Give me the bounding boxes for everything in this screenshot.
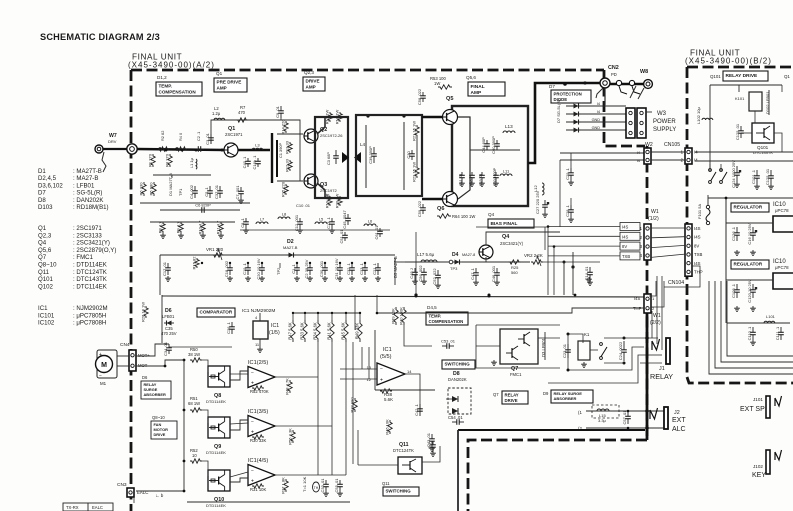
svg-text:C37 .01: C37 .01: [214, 184, 219, 199]
Q7 right wires: [538, 337, 560, 339]
ground C47: [473, 280, 479, 285]
W1 2/2 pin2 up: [651, 281, 664, 307]
transistor Q3: [304, 174, 318, 188]
svg-text:C59 .022: C59 .022: [417, 200, 422, 217]
resistor R48 4.7K: [285, 378, 293, 395]
svg-text:: RD18M(B1): : RD18M(B1): [73, 204, 109, 211]
svg-text:K101: K101: [735, 96, 745, 101]
connector CN104: [685, 224, 703, 276]
junction row263 230: [229, 262, 231, 264]
capacitor C34 .01: [163, 341, 172, 356]
svg-text:R64 100 1W: R64 100 1W: [452, 214, 475, 219]
svg-text:MOT+: MOT+: [138, 353, 150, 358]
svg-text:I4S: I4S: [622, 225, 628, 230]
capacitor C110 .1: [747, 326, 756, 340]
svg-text:(5/5): (5/5): [380, 354, 392, 360]
switch K1 contact: [600, 343, 607, 360]
VR1 wiper: [218, 248, 222, 260]
block label SWITCHING D8: [442, 360, 475, 369]
capacitor C101 .1: [751, 169, 760, 184]
junction J2 a: [627, 410, 630, 413]
svg-text:C53 .01: C53 .01: [441, 339, 456, 344]
svg-text:REGULATOR: REGULATOR: [734, 262, 763, 267]
ground IC1: [257, 347, 263, 352]
wire W1 row 2: [548, 245, 620, 247]
svg-text:C56 .002: C56 .002: [418, 265, 423, 282]
diode D4: [452, 260, 462, 265]
svg-text:C33 .1: C33 .1: [359, 262, 364, 275]
capacitor near Q11: [427, 441, 436, 451]
junction row263 248: [247, 262, 249, 264]
svg-text:R14 220: R14 220: [281, 119, 286, 135]
svg-text:IC1: IC1: [38, 305, 48, 312]
capacitor C29 .1: [565, 167, 574, 180]
unit B border left: [686, 67, 689, 377]
W1-CN104 wire 3: [651, 254, 685, 257]
junction main bus a: [158, 147, 161, 150]
D7 wire I40: [566, 105, 626, 107]
svg-text:38 1W: 38 1W: [188, 352, 200, 357]
resistor R33 5.6K: [300, 320, 308, 342]
capacitor C126b .01: [765, 168, 774, 185]
capacitor C52 .022: [432, 268, 441, 285]
capacitor C48b: [469, 172, 475, 181]
svg-text:Q1: Q1: [784, 74, 790, 79]
capacitor C13: [326, 216, 335, 229]
wire to Q5: [422, 116, 452, 119]
wire bank R49 33K: [359, 313, 361, 320]
unit A border top: [131, 69, 604, 72]
terminal W7 inner: [127, 144, 137, 154]
unit B border bottom: [687, 377, 793, 383]
svg-text:C126 .1: C126 .1: [731, 226, 736, 241]
switch S B1: [709, 169, 716, 184]
main drive bus W7: [103, 148, 127, 150]
W2-CN105 wires: [651, 151, 685, 153]
svg-text:TXB: TXB: [694, 252, 702, 257]
capacitor C3 68P: [333, 150, 339, 164]
inductor L5: [315, 217, 327, 225]
svg-text:IC1(2/5): IC1(2/5): [248, 360, 268, 366]
transformer wires: [365, 125, 367, 188]
svg-text:R9 4.7: R9 4.7: [176, 221, 181, 234]
K1 dash link: [590, 349, 598, 351]
wire C29 tap: [570, 153, 572, 168]
svg-text:L101: L101: [766, 314, 776, 319]
ground R11 4.7: [218, 233, 224, 238]
VR1 row wire: [160, 254, 395, 256]
transistor Q6: [443, 192, 458, 207]
capacitor C49: [479, 172, 485, 181]
inductor L13: [503, 131, 515, 133]
svg-text:D2,4,5: D2,4,5: [38, 175, 57, 182]
motor M1: [96, 350, 118, 386]
wire q7 to w1 rows: [559, 160, 561, 227]
junction bank 318: [317, 312, 319, 314]
svg-text:C29 .1: C29 .1: [565, 167, 570, 180]
inductor L7: [256, 217, 268, 225]
junction K1 wire: [567, 333, 570, 336]
diode pair D8: [446, 388, 471, 414]
CN104 pin5 link: [664, 266, 700, 287]
svg-text:C4 .002: C4 .002: [189, 184, 194, 199]
wire THP row: [377, 308, 644, 313]
svg-text:SCHEMATIC DIAGRAM 2/3: SCHEMATIC DIAGRAM 2/3: [40, 32, 160, 42]
junction W1 row b: [553, 245, 556, 248]
svg-text:C48 J: C48 J: [409, 268, 414, 278]
svg-text:C23 .01: C23 .01: [562, 343, 567, 358]
inductor L15 dashed box: [592, 405, 619, 418]
transistor Q101 box: [752, 123, 774, 143]
junction main bus b: [175, 147, 178, 150]
junction bus 182: [181, 149, 184, 152]
long vertical 416: [415, 232, 417, 295]
main drive bus: [137, 149, 225, 150]
svg-text:2SC1971: 2SC1971: [225, 132, 243, 137]
capacitor C59: [417, 200, 426, 217]
CN2 branch down: [604, 88, 606, 105]
svg-text:C125 .01: C125 .01: [735, 123, 740, 140]
svg-text:MA27-B: MA27-B: [283, 245, 298, 250]
junction relay 647: [645, 336, 649, 340]
W3 wires right: [646, 111, 652, 113]
block label REGULATOR 1: [731, 203, 769, 212]
VR1 rail down: [159, 255, 161, 295]
svg-text:R41 5.6K: R41 5.6K: [327, 322, 332, 340]
svg-text:C24 .0022: C24 .0022: [618, 341, 623, 360]
ground C108: [734, 306, 740, 311]
Q11 vert wire: [357, 430, 359, 465]
EALC wire: [133, 497, 135, 503]
svg-text:C27 220 25V: C27 220 25V: [535, 190, 540, 214]
svg-text:C39 390P: C39 390P: [368, 146, 373, 164]
bank top rail: [293, 312, 360, 314]
resistor R20 1W: [335, 194, 343, 209]
svg-text:C50 1000P: C50 1000P: [493, 167, 497, 186]
capacitor C40 .1: [242, 156, 251, 169]
junction thick J2 2: [645, 426, 649, 430]
svg-text:R12 1W: R12 1W: [325, 110, 330, 125]
svg-text:Q5,6: Q5,6: [466, 75, 476, 80]
transistor Q10: [208, 470, 230, 491]
wire bank R45 5.6K: [345, 313, 347, 320]
connector CN105: [681, 148, 699, 164]
svg-text:MA27-8: MA27-8: [462, 253, 475, 257]
resistor R47 5.6K: [288, 320, 296, 342]
svg-text:3.0: 3.0: [427, 442, 432, 448]
resistor R12 33: [285, 158, 293, 172]
fan bus vertical: [183, 360, 185, 491]
svg-text:−: −: [99, 373, 102, 379]
block label DRIVE AMP: [303, 77, 325, 91]
svg-text:W1: W1: [653, 313, 661, 319]
B rail drop: [709, 85, 711, 171]
wire W1 row 0: [548, 226, 620, 228]
svg-text:C46 .001: C46 .001: [491, 265, 496, 282]
svg-text:SWITCHING: SWITCHING: [445, 361, 471, 366]
resistor R18 1W: [335, 110, 343, 125]
junction row263 352: [351, 262, 353, 264]
svg-text:C120 10 25V: C120 10 25V: [747, 279, 752, 303]
inductor L12: [542, 183, 544, 195]
junction C24 bot: [623, 362, 626, 365]
transistor Q2: [304, 129, 318, 143]
resistor R33b: [350, 397, 358, 413]
resistor R37 1.8K: [281, 477, 289, 494]
inductor L15: [597, 409, 609, 411]
block label TEMP COMPENSATION: [156, 82, 202, 96]
vertical from W1 rows a: [547, 227, 549, 295]
svg-text:3.3μ: 3.3μ: [598, 418, 607, 423]
svg-text:: 2SC2879(O,Y): : 2SC2879(O,Y): [73, 247, 116, 254]
capacitor C57 .01: [622, 410, 631, 425]
thick bus W1 down: [646, 313, 649, 440]
terminal W8: [644, 80, 653, 89]
svg-text:CN104: CN104: [668, 280, 684, 286]
W1 pin label box I4S0: [620, 223, 640, 231]
svg-text:R47 5.6K: R47 5.6K: [288, 322, 293, 340]
capacitor C7 .001: [235, 185, 244, 200]
B horiz 280: [726, 279, 773, 281]
svg-text:C2 .1: C2 .1: [196, 132, 201, 141]
wire bank R47 5.6K: [292, 313, 294, 320]
resistor R6 330: [139, 182, 147, 196]
VR2 wiper: [537, 255, 541, 266]
B mid wires2: [695, 160, 793, 162]
junction Q4 row a: [563, 261, 566, 264]
diode D7 element 1: [571, 112, 581, 117]
ground C18 .002: [227, 276, 233, 281]
wire bank R41 5.6K: [331, 313, 333, 320]
resistor R50: [190, 358, 202, 362]
svg-text:DRV: DRV: [108, 139, 117, 144]
capacitor C5 .1: [204, 186, 213, 198]
svg-text:C20 10 16V: C20 10 16V: [256, 258, 261, 279]
svg-text:Q4: Q4: [38, 240, 47, 247]
capacitor C48 J: [409, 268, 418, 279]
capacitor C3: [205, 132, 214, 145]
svg-text:C21 .1: C21 .1: [372, 262, 377, 275]
svg-text:IC1: IC1: [271, 323, 279, 329]
svg-text:D8: D8: [38, 197, 46, 204]
IC1 power block: [253, 321, 268, 339]
nested wire a: [651, 311, 653, 338]
svg-text:−: −: [380, 367, 383, 373]
transistor Q7 internals: [506, 332, 530, 360]
svg-text:C32 .1: C32 .1: [346, 262, 351, 275]
junction bus 166: [165, 149, 168, 152]
resistor R22: [412, 162, 420, 182]
svg-text:C45 .0047: C45 .0047: [342, 210, 347, 229]
svg-text:(X45-3490-00)(B/2): (X45-3490-00)(B/2): [685, 57, 772, 66]
svg-text:Q102: Q102: [38, 283, 54, 290]
resistor R16 82: [192, 256, 200, 270]
svg-text:C108 .1: C108 .1: [731, 283, 736, 298]
svg-text:C51 .01: C51 .01: [339, 229, 344, 244]
svg-text:R8 4.7: R8 4.7: [158, 221, 163, 234]
inductor L6: [364, 219, 376, 227]
B unit K101 down: [754, 111, 756, 123]
IC1 5/5 in wires: [340, 368, 377, 370]
junction bank 305: [304, 312, 306, 314]
capacitor C16 10 25V: [747, 223, 757, 244]
svg-text:CN4: CN4: [120, 342, 130, 348]
svg-text:I4S: I4S: [634, 296, 640, 301]
junction W1 row a: [547, 225, 550, 228]
svg-text:C125 .01: C125 .01: [765, 168, 770, 185]
D102 wire: [768, 90, 770, 115]
signal table: [63, 503, 113, 511]
svg-text:Q1: Q1: [216, 71, 223, 76]
resistor R8 4.7: [158, 221, 166, 234]
svg-text:DTC143TK: DTC143TK: [753, 150, 773, 155]
junction row263 202: [201, 262, 203, 264]
capacitor C108 .1: [731, 283, 740, 298]
op-amp IC1(5/5): [377, 363, 405, 385]
junction thick rail a: [366, 114, 369, 117]
ground B caps3: [768, 184, 774, 189]
resistor R12 1W: [325, 110, 333, 125]
Q11 out wire: [422, 446, 440, 462]
svg-text:D4: D4: [452, 252, 459, 258]
D7 wire GND2: [566, 121, 626, 123]
connector pin a: [616, 80, 627, 94]
svg-text:L3: L3: [255, 143, 260, 148]
wire Q2 collector: [317, 117, 325, 134]
svg-text:(X45-3490-00)(A/2): (X45-3490-00)(A/2): [128, 61, 215, 70]
svg-text:R40 100K: R40 100K: [399, 307, 404, 325]
ground K1: [581, 362, 587, 367]
capacitor C60 390P: [491, 136, 500, 154]
wire CN2 to W8: [610, 83, 644, 86]
svg-text:EXT: EXT: [672, 417, 686, 424]
resistor fb IC1(3/5): [252, 435, 264, 439]
resistor R1 270: [148, 153, 156, 167]
svg-text:IC1 NJM2902M: IC1 NJM2902M: [242, 308, 275, 314]
svg-text:R46 10K: R46 10K: [385, 419, 390, 435]
transistor Q9: [208, 417, 230, 438]
capacitor C32 .1: [346, 262, 355, 275]
ground C29: [568, 180, 574, 185]
junction bus295 a: [414, 293, 417, 296]
svg-text:TH: TH: [314, 486, 319, 490]
drive coupling box: [315, 117, 348, 198]
capacitor C6 820P: [195, 203, 211, 213]
switching section outline: [374, 330, 376, 390]
inductor L2: [214, 118, 225, 120]
junction bus295 c: [574, 294, 577, 297]
op-amp IC1(2/5): [248, 367, 275, 388]
CN4 out wires2: [136, 360, 184, 366]
ground R8 4.7: [160, 233, 166, 238]
capacitor C124 1000 25V: [731, 160, 741, 188]
connector J1: [652, 338, 670, 364]
svg-text:+: +: [99, 352, 102, 358]
unit A border right upper: [604, 70, 645, 146]
switching outline2: [375, 389, 435, 391]
svg-text:C5 .1: C5 .1: [204, 186, 209, 196]
B mid wires: [695, 151, 793, 153]
final output wire: [528, 83, 600, 163]
capacitor C27: [542, 200, 549, 212]
wire R51 to Q9: [202, 410, 208, 423]
svg-text:Q101: Q101: [710, 74, 721, 79]
svg-text:BIAS FINAL: BIAS FINAL: [491, 221, 518, 227]
wire Q3 collector: [317, 183, 325, 198]
ground C2 39 25V: [307, 276, 313, 281]
svg-text:D3,6,102: D3,6,102: [38, 182, 63, 189]
CN2 hook down: [596, 88, 603, 98]
nested corner 2: [721, 281, 793, 362]
svg-text:: DAN202K: : DAN202K: [73, 197, 103, 204]
ground C32 .1: [349, 276, 355, 281]
ground inter1: [243, 228, 249, 233]
W1 pin label box TXB3: [620, 252, 640, 260]
base column: [299, 134, 301, 181]
nested corner 3: [727, 281, 793, 356]
ground C31 10 16V: [337, 276, 343, 281]
svg-text:R18 1W: R18 1W: [335, 110, 340, 125]
svg-text:Q8~10: Q8~10: [38, 262, 57, 269]
capacitor C47 .1: [470, 267, 479, 280]
ground inter2: [297, 228, 303, 233]
svg-text:C16 10 25V: C16 10 25V: [747, 223, 752, 244]
block label RELAY DRIVE A: [502, 391, 528, 404]
unit A border left: [130, 70, 133, 511]
svg-text:M: M: [101, 362, 107, 369]
svg-text:RELAY DRIVE: RELAY DRIVE: [726, 73, 759, 79]
wire C28 tap: [570, 198, 572, 205]
relay row2: [604, 362, 624, 364]
junction B198: [725, 197, 728, 200]
diode D7 element 0: [571, 104, 581, 109]
relay wires: [604, 337, 658, 339]
capacitor C50: [493, 172, 499, 181]
svg-text:R30 33K: R30 33K: [250, 438, 267, 443]
svg-text:D1,2: D1,2: [157, 75, 167, 80]
capacitor C120 10 25V: [747, 279, 757, 303]
svg-text:R16 82: R16 82: [192, 256, 197, 270]
W2-CN105 wires2: [651, 159, 685, 161]
W1-CN104 wire 2: [651, 245, 685, 247]
capacitor C4 .001: [189, 184, 198, 199]
bias row mid: [405, 261, 452, 263]
capacitor C28 .1: [565, 204, 574, 217]
svg-text:DTC124TK: DTC124TK: [393, 448, 414, 453]
svg-text:C2 39 25V: C2 39 25V: [304, 259, 309, 278]
connector W3: [626, 108, 635, 138]
ground B caps2: [754, 184, 760, 189]
svg-text:L6: L6: [368, 219, 373, 224]
L101 row: [727, 322, 790, 324]
svg-text:J2: J2: [674, 410, 680, 416]
svg-text:IC102: IC102: [38, 320, 55, 327]
svg-text:R5 680: R5 680: [149, 182, 154, 196]
svg-text:GND: GND: [592, 126, 601, 130]
svg-text:Q2,3: Q2,3: [304, 70, 314, 75]
svg-text:(1/2): (1/2): [648, 216, 659, 222]
svg-text:Q7: Q7: [38, 254, 47, 261]
resistor R11 4.7: [216, 220, 224, 234]
svg-text:L7: L7: [260, 217, 265, 222]
svg-text:: μPC7808H: : μPC7808H: [73, 320, 106, 327]
capacitor C9: [275, 105, 284, 118]
capacitor C46 .001: [491, 265, 500, 282]
svg-text:C12 .001: C12 .001: [294, 214, 299, 231]
wire bank R33 5.6K: [304, 313, 306, 320]
svg-text:∟ b: ∟ b: [155, 493, 164, 498]
svg-text:: MA27T-B: : MA27T-B: [73, 168, 102, 175]
